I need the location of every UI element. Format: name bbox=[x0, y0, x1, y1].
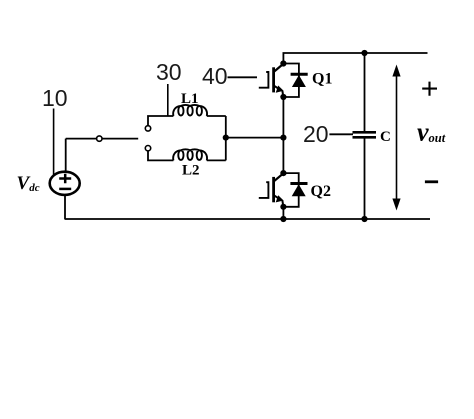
vout arrow bottom head bbox=[392, 199, 400, 211]
wire: bottom rail bbox=[65, 218, 431, 220]
lower throw terminal bbox=[145, 146, 150, 151]
wire: source bottom to bottom rail bbox=[64, 195, 66, 219]
Q2 body bar bbox=[272, 177, 275, 202]
wire: midpoint vertical Q1 to Q2 bbox=[282, 97, 284, 173]
svg-text:30: 30 bbox=[156, 59, 182, 85]
wire: Q2 emitter to bottom rail bbox=[282, 207, 284, 219]
leader line for 40 to Q1 gate bbox=[228, 76, 258, 78]
diode D2 loop wiring bbox=[283, 173, 298, 207]
wire: lower terminal to bottom branch bbox=[148, 151, 173, 161]
capacitor top plate bbox=[353, 131, 377, 134]
node: Q1 emitter junction bbox=[280, 94, 286, 100]
wire: upper terminal to top branch bbox=[148, 116, 173, 126]
svg-text:Q2: Q2 bbox=[311, 183, 331, 200]
Q2 gate lead and plate bbox=[259, 182, 269, 198]
svg-text:C: C bbox=[380, 129, 391, 145]
svg-text:20: 20 bbox=[303, 121, 329, 147]
diode D1 loop wiring bbox=[283, 64, 299, 98]
svg-text:vout: vout bbox=[417, 118, 446, 147]
node: Q2 collector junction bbox=[280, 170, 286, 176]
diode D1 triangle bbox=[292, 75, 306, 87]
node: Q2 on bottom rail bbox=[280, 216, 286, 222]
svg-text:Vdc: Vdc bbox=[17, 173, 40, 194]
capacitor top lead bbox=[364, 53, 366, 131]
vout arrow top head bbox=[392, 65, 400, 77]
Q1 emitter diagonal with arrow bbox=[274, 85, 284, 96]
leader line for 10 bbox=[53, 109, 55, 177]
wire: horizontal to switch pole bbox=[66, 138, 139, 140]
wire: source top to switch corner bbox=[65, 139, 67, 172]
label minus bbox=[425, 180, 438, 183]
svg-text:40: 40 bbox=[202, 63, 228, 89]
Q1 gate lead and plate bbox=[259, 72, 269, 88]
inductor L2 bbox=[173, 149, 207, 160]
diode D1 cathode bar bbox=[291, 73, 308, 76]
node: capacitor on bottom rail bbox=[361, 216, 367, 222]
capacitor bottom lead bbox=[364, 139, 366, 220]
diode D2 cathode bar bbox=[290, 182, 307, 185]
Q1 collector diagonal bbox=[274, 64, 284, 72]
wire: top rail bbox=[283, 53, 427, 64]
svg-text:L2: L2 bbox=[182, 163, 200, 179]
node: Q2 emitter junction bbox=[280, 204, 286, 210]
transistor Q2 (IGBT) bbox=[259, 173, 284, 206]
wire: mid link to half-bridge midpoint bbox=[226, 137, 284, 139]
wire: L1 to right vertical bbox=[207, 115, 226, 117]
capacitor bottom plate bbox=[353, 136, 377, 139]
leader line for 20 bbox=[329, 133, 353, 135]
svg-text:10: 10 bbox=[42, 85, 68, 111]
svg-text:Q1: Q1 bbox=[312, 71, 332, 88]
plus sign in source bbox=[59, 174, 71, 184]
dc source V_dc bbox=[50, 172, 80, 195]
leader line for 30 bbox=[167, 84, 169, 116]
minus sign in source bbox=[59, 188, 71, 191]
Q2 emitter diagonal with arrow bbox=[274, 195, 284, 206]
diode D2 triangle bbox=[292, 184, 306, 196]
node: capacitor on top rail bbox=[361, 50, 367, 56]
upper throw terminal bbox=[145, 126, 150, 131]
vout arrow shaft bbox=[396, 74, 398, 201]
node: Q1 collector junction bbox=[280, 60, 286, 66]
capacitor C bbox=[353, 53, 377, 219]
inductor L1 bbox=[173, 105, 207, 116]
Q2 collector diagonal bbox=[274, 173, 284, 181]
wire: right vertical of L1/L2 loop bbox=[225, 116, 227, 160]
junction node at loop output bbox=[223, 135, 229, 141]
transistor Q1 (IGBT) bbox=[259, 64, 284, 97]
switch pole circle bbox=[97, 136, 102, 141]
label plus bbox=[422, 82, 437, 96]
wire: L2 to right vertical bbox=[207, 159, 226, 161]
junction node at half-bridge midpoint bbox=[280, 135, 286, 141]
svg-text:L1: L1 bbox=[181, 91, 199, 107]
Q1 body bar bbox=[272, 67, 275, 92]
